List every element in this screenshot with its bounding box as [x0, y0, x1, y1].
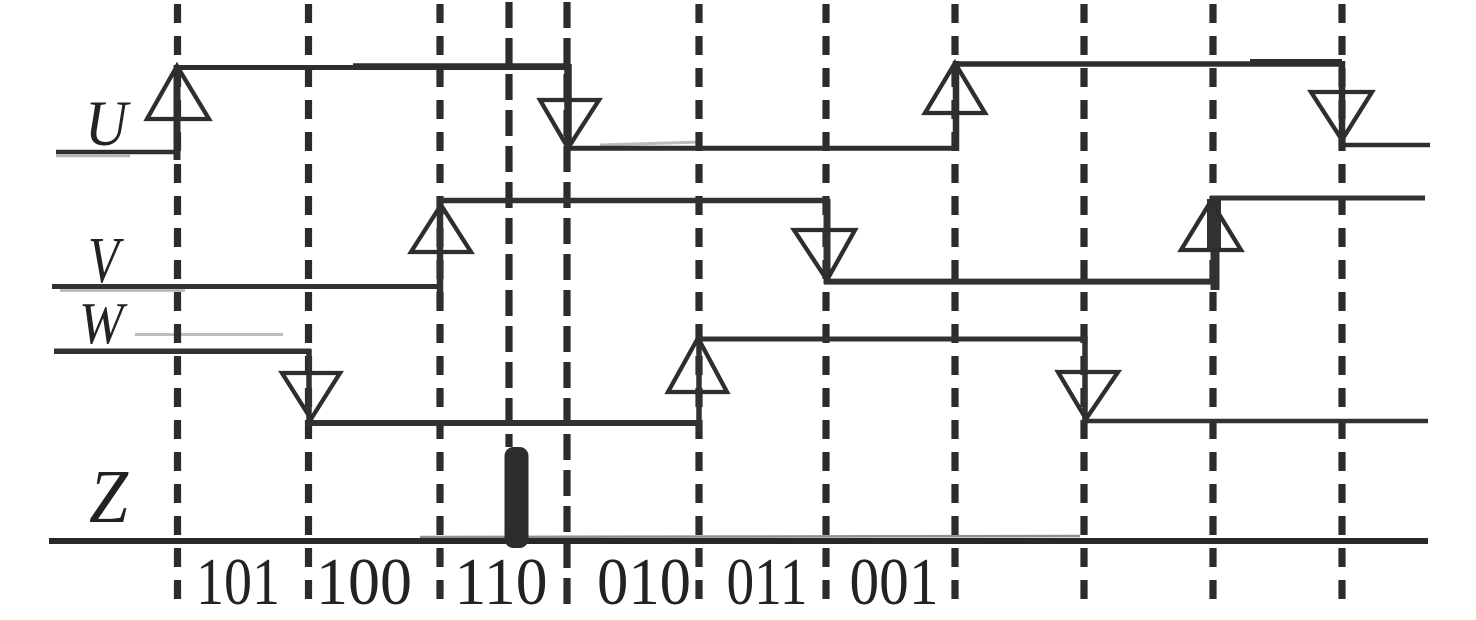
svg-text:010: 010: [597, 545, 691, 619]
svg-text:011: 011: [727, 545, 808, 619]
svg-text:U: U: [85, 88, 131, 160]
svg-text:101: 101: [196, 545, 280, 619]
svg-text:W: W: [79, 290, 128, 356]
svg-text:V: V: [88, 224, 124, 297]
svg-text:100: 100: [316, 545, 412, 619]
svg-text:001: 001: [850, 545, 939, 619]
svg-text:110: 110: [455, 545, 548, 619]
svg-text:Z: Z: [89, 455, 129, 539]
